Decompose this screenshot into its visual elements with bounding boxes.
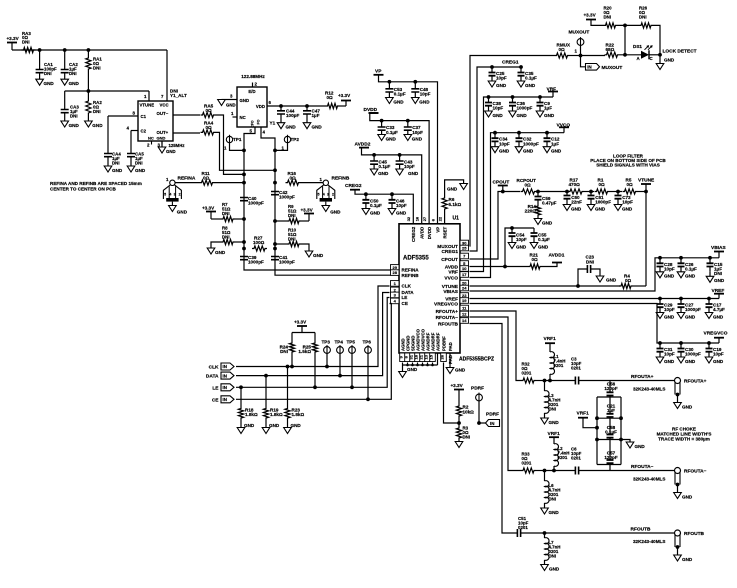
node C38 bbox=[487, 95, 491, 99]
svg-text:TP1: TP1 bbox=[233, 137, 242, 142]
resistor R14 bbox=[537, 200, 539, 204]
capacitor CA2 bbox=[64, 50, 66, 70]
resistor R21 bbox=[528, 264, 542, 269]
svg-text:VVCO: VVCO bbox=[444, 275, 458, 281]
wire Y1 pin4 bbox=[261, 127, 275, 150]
wire pin7 VCC bbox=[166, 50, 168, 101]
ground C53 bbox=[386, 98, 394, 104]
svg-text:DNI: DNI bbox=[549, 554, 557, 559]
svg-text:GND: GND bbox=[714, 278, 725, 283]
wire ladder rung2 bbox=[597, 417, 621, 419]
ground C48 bbox=[412, 98, 420, 104]
svg-text:5.1kΩ: 5.1kΩ bbox=[449, 202, 462, 207]
wire DATA net bbox=[236, 293, 390, 376]
svg-text:VRF1: VRF1 bbox=[548, 431, 561, 437]
wire top rail bbox=[12, 49, 167, 51]
svg-text:AVDD: AVDD bbox=[420, 227, 425, 239]
svg-text:10pF: 10pF bbox=[664, 266, 675, 271]
wire RFOUTA- row bbox=[545, 470, 576, 472]
svg-text:DNI: DNI bbox=[586, 259, 594, 264]
node C15 bbox=[708, 256, 712, 260]
svg-text:3: 3 bbox=[327, 192, 329, 196]
svg-text:GND: GND bbox=[166, 149, 176, 154]
svg-text:DNI: DNI bbox=[549, 407, 557, 412]
node CA1 bbox=[38, 48, 42, 52]
node TP2 bbox=[273, 149, 277, 153]
svg-text:IN: IN bbox=[223, 397, 227, 402]
svg-text:19: 19 bbox=[462, 298, 467, 303]
resistor R22 bbox=[605, 52, 620, 57]
svg-text:32K243-40MLS: 32K243-40MLS bbox=[633, 539, 665, 544]
ground PAD bbox=[449, 353, 451, 368]
capacitor C23 DNI bbox=[578, 269, 587, 286]
svg-text:VTUNE: VTUNE bbox=[638, 177, 655, 183]
wire VTUNE row bbox=[470, 285, 621, 287]
svg-text:IN: IN bbox=[587, 65, 591, 70]
svg-text:1000pF: 1000pF bbox=[248, 201, 264, 206]
ground Y1_ALT pin3 bbox=[161, 141, 163, 147]
connector RFOUTA− bbox=[675, 468, 681, 474]
resistor RA1 bbox=[86, 56, 91, 71]
svg-text:GND: GND bbox=[606, 278, 617, 283]
svg-text:CLK: CLK bbox=[209, 365, 219, 371]
svg-text:PDRF: PDRF bbox=[471, 386, 484, 392]
svg-text:1000pF: 1000pF bbox=[685, 307, 701, 312]
svg-text:RFOUTB: RFOUTB bbox=[631, 527, 652, 533]
ground CA3 bbox=[61, 121, 69, 127]
svg-text:GND: GND bbox=[378, 171, 389, 176]
svg-text:TP2: TP2 bbox=[291, 137, 300, 142]
capacitor C46 bbox=[391, 194, 393, 200]
svg-text:GND: GND bbox=[549, 510, 560, 515]
ground CA5 bbox=[127, 166, 135, 172]
ground C27 bbox=[677, 313, 685, 319]
node CA2 bbox=[63, 48, 67, 52]
net VTUNE loop bbox=[644, 190, 648, 194]
node R9 bbox=[273, 219, 277, 223]
ground C54 bbox=[508, 243, 516, 249]
op-amp U1 ADF5355 body bbox=[399, 224, 460, 353]
node C54 bbox=[510, 226, 514, 230]
svg-text:DNI: DNI bbox=[69, 71, 77, 76]
wire PDBRF bbox=[444, 363, 460, 424]
capacitor C36 bbox=[512, 97, 514, 103]
svg-text:CPOUT: CPOUT bbox=[441, 257, 458, 263]
node C27 bbox=[679, 297, 683, 301]
capacitor C27 bbox=[680, 299, 682, 305]
svg-text:17: 17 bbox=[462, 272, 467, 277]
connector RFOUTA+ bbox=[675, 378, 681, 384]
wire REFINA to R11 bbox=[175, 182, 199, 184]
svg-text:0Ω: 0Ω bbox=[599, 182, 606, 187]
svg-text:10pF: 10pF bbox=[499, 141, 510, 146]
svg-text:GND: GND bbox=[517, 113, 528, 118]
wire C51 to L7 bbox=[521, 532, 545, 534]
svg-text:+3.3V: +3.3V bbox=[7, 36, 20, 41]
svg-text:GND: GND bbox=[496, 83, 507, 88]
svg-text:MUXOUT: MUXOUT bbox=[602, 65, 623, 71]
svg-text:DNI: DNI bbox=[70, 114, 78, 119]
node C29 bbox=[658, 297, 662, 301]
inductor L2 bbox=[554, 444, 559, 467]
svg-text:GND: GND bbox=[412, 136, 423, 141]
ground C30 bbox=[677, 357, 685, 363]
resistor RA5 bbox=[173, 114, 200, 116]
node R16 bbox=[273, 181, 277, 185]
svg-text:GND: GND bbox=[635, 444, 646, 449]
wire MUXOUT row bbox=[581, 55, 606, 57]
wire node row2 bbox=[87, 89, 91, 93]
svg-text:10pF: 10pF bbox=[493, 106, 504, 111]
capacitor C54 bbox=[511, 228, 513, 233]
wire RA4 to refinb bbox=[216, 132, 276, 170]
net VREF bbox=[470, 298, 720, 300]
wire ladder rails lower bbox=[596, 418, 598, 464]
svg-text:1.8kΩ: 1.8kΩ bbox=[292, 412, 305, 417]
svg-text:GND: GND bbox=[538, 244, 549, 249]
node RA1 bbox=[87, 48, 91, 52]
capacitor C53 bbox=[388, 82, 390, 89]
node C44 bbox=[279, 104, 283, 108]
capacitor C31 bbox=[659, 343, 661, 349]
resistor R9 bbox=[287, 218, 301, 223]
ground RFOUTA+ bbox=[674, 403, 682, 409]
wire RFOUTB from chip bbox=[470, 324, 518, 534]
svg-text:TP4: TP4 bbox=[335, 340, 344, 345]
svg-text:TRACE WIDTH = 380µm: TRACE WIDTH = 380µm bbox=[658, 437, 710, 442]
wire C6 to RFOUTA- bbox=[579, 470, 674, 472]
svg-text:0201: 0201 bbox=[558, 455, 568, 460]
svg-text:IN: IN bbox=[223, 373, 227, 378]
svg-text:TP6: TP6 bbox=[363, 340, 372, 345]
capacitor C45 bbox=[373, 155, 375, 161]
svg-text:RFOUTA−: RFOUTA− bbox=[684, 468, 707, 474]
resistor R32 bbox=[521, 378, 536, 383]
capacitor CA3 bbox=[64, 91, 66, 110]
node CPOUT bbox=[501, 190, 505, 194]
node MUXOUT bbox=[579, 54, 583, 58]
svg-text:RFOUTA+: RFOUTA+ bbox=[631, 374, 654, 380]
net VVCO bbox=[470, 133, 565, 278]
svg-text:32K243-40MLS: 32K243-40MLS bbox=[633, 387, 665, 392]
capacitor C38 bbox=[488, 97, 490, 103]
svg-text:CREG1: CREG1 bbox=[441, 249, 458, 255]
node C30 bbox=[679, 341, 683, 345]
svg-text:1000pF: 1000pF bbox=[523, 141, 539, 146]
svg-text:10pF: 10pF bbox=[664, 307, 675, 312]
node R10 bbox=[273, 242, 277, 246]
capacitor C33 bbox=[381, 121, 383, 127]
wire C3 to RFOUTA+ bbox=[579, 380, 674, 382]
wire CE net bbox=[236, 304, 391, 400]
capacitor C48 bbox=[414, 82, 416, 89]
svg-text:OUT−: OUT− bbox=[157, 111, 169, 116]
inductor L3 bbox=[544, 381, 546, 392]
node RFOUTA- L6 bbox=[543, 469, 547, 473]
svg-text:GND: GND bbox=[664, 314, 675, 319]
node AVDD bbox=[503, 265, 507, 269]
node RA4 bbox=[273, 168, 277, 172]
ground C33 bbox=[378, 135, 386, 141]
net VBIAS bbox=[470, 258, 720, 291]
capacitor C59 bbox=[537, 192, 539, 197]
node C34 bbox=[493, 131, 497, 135]
connector RFOUTB bbox=[675, 530, 681, 536]
node RFOUTA- L2 bbox=[552, 469, 556, 473]
svg-text:GND: GND bbox=[386, 136, 397, 141]
svg-text:GND: GND bbox=[393, 99, 404, 104]
resistor R3 bbox=[456, 426, 461, 440]
svg-text:1µF: 1µF bbox=[312, 113, 320, 118]
node C26 bbox=[679, 256, 683, 260]
svg-text:GND: GND bbox=[571, 206, 582, 211]
ground C35 bbox=[517, 81, 525, 87]
svg-text:1.5kΩ: 1.5kΩ bbox=[298, 349, 311, 354]
wire ladder rung1 bbox=[597, 396, 621, 398]
svg-text:RFOUTA+: RFOUTA+ bbox=[436, 309, 459, 315]
svg-text:+3.3V: +3.3V bbox=[202, 206, 215, 211]
svg-text:GND: GND bbox=[269, 423, 280, 428]
node R20 bbox=[623, 24, 627, 28]
ground CA2 bbox=[61, 79, 69, 85]
capacitor C39 bbox=[240, 257, 248, 260]
svg-text:1.8kΩ: 1.8kΩ bbox=[245, 412, 258, 417]
ground R6 bbox=[460, 184, 468, 190]
resistor R20 bbox=[604, 23, 618, 28]
ground R8 bbox=[207, 248, 215, 254]
ground CA1 bbox=[36, 79, 44, 85]
svg-text:C1: C1 bbox=[141, 114, 147, 119]
svg-text:CLK: CLK bbox=[402, 284, 412, 289]
svg-text:IN: IN bbox=[223, 364, 227, 369]
svg-text:+3.3V: +3.3V bbox=[584, 13, 597, 18]
svg-text:0Ω: 0Ω bbox=[525, 182, 532, 187]
svg-text:0Ω: 0Ω bbox=[625, 278, 632, 283]
node RA5 bbox=[242, 173, 246, 177]
svg-text:0.1µF: 0.1µF bbox=[605, 430, 617, 435]
svg-text:0.1µF: 0.1µF bbox=[386, 130, 398, 135]
resistor RA2 bbox=[86, 99, 91, 115]
oscillator Y1 box bbox=[252, 83, 254, 88]
node C37 bbox=[406, 119, 410, 123]
svg-text:GND: GND bbox=[69, 81, 80, 86]
svg-text:REFINB: REFINB bbox=[332, 176, 350, 182]
node C46 bbox=[390, 192, 394, 196]
svg-text:DNI: DNI bbox=[714, 271, 722, 276]
node R7 bbox=[242, 217, 246, 221]
resistor R27 bbox=[252, 246, 267, 251]
resistor R4 bbox=[619, 283, 633, 288]
svg-text:TP3: TP3 bbox=[322, 340, 331, 345]
svg-text:5: 5 bbox=[164, 192, 166, 196]
svg-text:2: 2 bbox=[332, 192, 334, 196]
svg-text:120pF: 120pF bbox=[604, 455, 617, 460]
node TP1 bbox=[242, 149, 246, 153]
svg-text:DNI: DNI bbox=[549, 497, 557, 502]
svg-text:GND: GND bbox=[682, 557, 693, 562]
svg-text:GND: GND bbox=[523, 149, 534, 154]
net CREG1 bbox=[470, 67, 522, 251]
wire C57 to RFOUTA- row bbox=[609, 465, 611, 471]
wire pin1 Y1_ALT bbox=[148, 91, 150, 101]
svg-text:GND: GND bbox=[313, 253, 324, 258]
svg-text:0201: 0201 bbox=[571, 366, 581, 371]
svg-text:GND: GND bbox=[622, 206, 633, 211]
svg-text:DNI: DNI bbox=[604, 15, 612, 20]
node C25 bbox=[490, 65, 494, 69]
ground C50 bbox=[362, 209, 370, 215]
svg-text:GND: GND bbox=[69, 123, 80, 128]
node R27 left bbox=[242, 247, 246, 251]
node C73 bbox=[616, 190, 620, 194]
svg-text:GND: GND bbox=[544, 113, 555, 118]
svg-text:RFOUTA−: RFOUTA− bbox=[631, 464, 654, 470]
svg-text:100pF: 100pF bbox=[286, 113, 299, 118]
resistor R7 bbox=[211, 218, 221, 220]
node C35 bbox=[519, 65, 523, 69]
wire VTUNE down bbox=[645, 192, 647, 287]
wire R11 to node bbox=[215, 182, 245, 184]
resistor RCPOUT bbox=[521, 189, 537, 194]
svg-text:22nF: 22nF bbox=[571, 199, 582, 204]
svg-text:IN: IN bbox=[490, 421, 494, 426]
node C9 bbox=[538, 95, 542, 99]
svg-text:0Ω: 0Ω bbox=[290, 175, 297, 180]
svg-text:VBIAS: VBIAS bbox=[443, 289, 458, 295]
wire AVDD up to C54C55 bbox=[505, 228, 534, 267]
svg-text:DNI: DNI bbox=[112, 161, 120, 166]
svg-text:GND: GND bbox=[595, 206, 606, 211]
node C33 bbox=[380, 119, 384, 123]
capacitor C19 bbox=[708, 343, 710, 349]
svg-text:0Ω: 0Ω bbox=[327, 95, 334, 100]
svg-text:GND: GND bbox=[226, 103, 236, 108]
net CPOUT bbox=[470, 192, 503, 260]
wire R20 node down bbox=[624, 25, 626, 54]
capacitor C29 bbox=[659, 299, 661, 305]
svg-text:1000pF: 1000pF bbox=[279, 195, 295, 200]
svg-text:10pF: 10pF bbox=[412, 130, 423, 135]
svg-text:GND: GND bbox=[549, 566, 560, 571]
connector PDRF IN bbox=[479, 422, 486, 424]
svg-text:GND: GND bbox=[525, 83, 536, 88]
wire RA5 to refina bbox=[216, 115, 245, 174]
ground C26 bbox=[677, 272, 685, 278]
svg-text:GND: GND bbox=[135, 168, 146, 173]
svg-text:12: 12 bbox=[462, 312, 467, 317]
node C61 bbox=[589, 190, 593, 194]
ground C12 bbox=[543, 147, 551, 153]
resistor R10 bbox=[287, 241, 301, 246]
svg-text:OUT+: OUT+ bbox=[157, 130, 169, 135]
svg-text:GND: GND bbox=[408, 171, 419, 176]
svg-text:25: 25 bbox=[462, 246, 467, 251]
ground C46 bbox=[388, 209, 396, 215]
svg-text:10: 10 bbox=[462, 266, 467, 271]
node C17 bbox=[707, 297, 711, 301]
svg-text:1000pF: 1000pF bbox=[517, 106, 533, 111]
node C12 bbox=[545, 131, 549, 135]
ground C47 bbox=[303, 123, 311, 129]
capacitor C12 bbox=[546, 133, 548, 139]
svg-text:10pF: 10pF bbox=[420, 92, 431, 97]
ground R10 bbox=[305, 251, 313, 257]
svg-text:DS1: DS1 bbox=[633, 44, 642, 49]
node C23 bbox=[576, 284, 580, 288]
ground CA4 bbox=[104, 166, 112, 172]
svg-text:DNI: DNI bbox=[135, 161, 143, 166]
svg-text:22: 22 bbox=[437, 216, 442, 221]
svg-text:LE: LE bbox=[212, 385, 219, 391]
capacitor C26 bbox=[680, 258, 682, 264]
svg-text:LE: LE bbox=[402, 295, 408, 300]
svg-text:GND: GND bbox=[685, 359, 696, 364]
resistor R12 bbox=[326, 103, 340, 108]
svg-text:REFINA: REFINA bbox=[178, 176, 196, 182]
ground C15 bbox=[706, 276, 714, 282]
svg-text:4: 4 bbox=[323, 192, 325, 196]
node C45 bbox=[372, 153, 376, 157]
svg-text:15: 15 bbox=[429, 354, 434, 359]
ground L6 bbox=[541, 508, 549, 514]
svg-text:GND: GND bbox=[664, 359, 675, 364]
svg-text:5: 5 bbox=[318, 192, 320, 196]
wire Y1_ALT C2 pin4 bbox=[131, 130, 138, 132]
svg-text:27: 27 bbox=[422, 216, 427, 221]
svg-text:IN: IN bbox=[223, 385, 227, 390]
ground C34 bbox=[491, 147, 499, 153]
inductor L6 bbox=[544, 471, 546, 482]
resistor R1 bbox=[595, 189, 610, 194]
capacitor C40 bbox=[240, 198, 248, 201]
svg-text:GND: GND bbox=[551, 149, 562, 154]
capacitor C15 bbox=[709, 258, 711, 264]
node PDRF bbox=[477, 421, 481, 425]
svg-text:GND: GND bbox=[713, 359, 724, 364]
svg-text:0.1µF: 0.1µF bbox=[394, 92, 406, 97]
ground chip bus bbox=[402, 365, 404, 372]
svg-text:0Ω: 0Ω bbox=[627, 182, 634, 187]
svg-text:GND: GND bbox=[240, 98, 250, 103]
node C31 bbox=[658, 341, 662, 345]
svg-text:AVDD1: AVDD1 bbox=[549, 253, 565, 259]
resistor R2 bbox=[456, 404, 461, 418]
svg-text:0Ω: 0Ω bbox=[206, 125, 213, 130]
svg-text:GND: GND bbox=[407, 367, 418, 372]
capacitor C60 bbox=[566, 192, 568, 196]
svg-text:+3.3V: +3.3V bbox=[451, 383, 464, 388]
svg-text:1000pF: 1000pF bbox=[248, 260, 264, 265]
ground C17 bbox=[705, 313, 713, 319]
capacitor C35 bbox=[520, 67, 522, 73]
svg-text:GND: GND bbox=[286, 124, 297, 129]
wire MUXOUT rail bbox=[470, 56, 555, 247]
svg-text:GND: GND bbox=[713, 314, 724, 319]
ground C9 bbox=[536, 111, 544, 117]
ground Y1 pin3 bbox=[222, 99, 238, 101]
svg-text:DNI: DNI bbox=[222, 234, 230, 239]
capacitor CA5 bbox=[130, 131, 132, 154]
ground R3 bbox=[455, 442, 463, 448]
capacitor C25 bbox=[491, 67, 493, 73]
capacitor C42 bbox=[271, 192, 279, 195]
capacitor C58 bbox=[609, 418, 611, 434]
svg-text:GND: GND bbox=[682, 495, 693, 500]
svg-text:CPOUT: CPOUT bbox=[493, 179, 510, 185]
node C60 bbox=[565, 190, 569, 194]
svg-text:0Ω: 0Ω bbox=[203, 175, 210, 180]
svg-text:10pF: 10pF bbox=[496, 76, 507, 81]
